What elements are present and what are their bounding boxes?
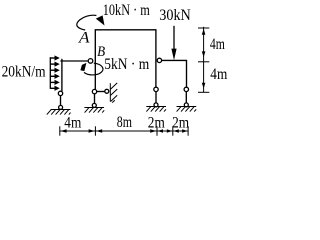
node left support upper hinge: [58, 91, 62, 95]
wire left frame column A down to bottom hinge: [94, 29, 96, 90]
wire left column under distributed load: [61, 59, 63, 92]
distributed load 20kN/m baseline: [49, 57, 51, 89]
svg-text:30kN: 30kN: [159, 5, 191, 24]
svg-text:A: A: [78, 30, 90, 47]
ground right support 1 with hatching: [146, 107, 166, 112]
wire right support 2 link: [185, 91, 187, 103]
wire top beam A to right column: [95, 29, 156, 31]
ground middle support with hatching: [84, 108, 104, 113]
svg-text:4m: 4m: [64, 115, 81, 132]
moment arrow 5kN·m at B (arc with arrowhead): [80, 63, 103, 75]
dimension arrows right vertical: [202, 29, 206, 89]
dimension line bottom: [60, 126, 188, 135]
node middle support lower roller: [92, 103, 96, 107]
node right support 2 upper hinge: [184, 87, 188, 91]
wire right extension beam: [162, 59, 188, 61]
force arrow 30kN downward: [171, 26, 176, 60]
node middle support upper hinge: [92, 89, 96, 93]
dimension line right vertical: [198, 27, 209, 93]
node hinge circle on right beam: [157, 58, 161, 62]
svg-text:4m: 4m: [210, 66, 227, 83]
moment arrow 10kN·m at A (arc with arrowhead): [77, 15, 105, 30]
node middle wall link hinge: [105, 89, 109, 93]
ground right support 2 with hatching: [177, 107, 197, 112]
wire right frame column: [155, 29, 157, 87]
ground wall for middle horizontal link, hatched: [110, 83, 117, 103]
svg-text:10kN · m: 10kN · m: [103, 0, 150, 19]
node right support 2 lower roller: [184, 103, 188, 107]
dimension arrows bottom: [60, 129, 187, 133]
svg-text:20kN/m: 20kN/m: [2, 62, 46, 81]
wire far right column: [186, 60, 188, 87]
wire middle support vertical link: [94, 94, 96, 104]
distributed load arrows: [50, 57, 58, 90]
svg-text:B: B: [97, 43, 105, 60]
node left support lower roller: [59, 105, 63, 109]
ground left support with hatching: [47, 110, 71, 115]
node right support 1 lower roller: [154, 103, 158, 107]
svg-text:4m: 4m: [210, 36, 225, 53]
svg-text:5kN · m: 5kN · m: [104, 54, 149, 73]
wire horizontal member at B level: [60, 60, 88, 62]
svg-text:2m: 2m: [172, 115, 189, 132]
node B hinge circle: [88, 59, 93, 64]
wire right support 1 link: [155, 91, 157, 103]
wire middle support horizontal link to wall: [97, 91, 105, 93]
svg-text:2m: 2m: [148, 115, 165, 132]
svg-text:8m: 8m: [117, 114, 133, 131]
node right support 1 upper hinge: [154, 87, 158, 91]
wire left support link: [60, 95, 62, 105]
